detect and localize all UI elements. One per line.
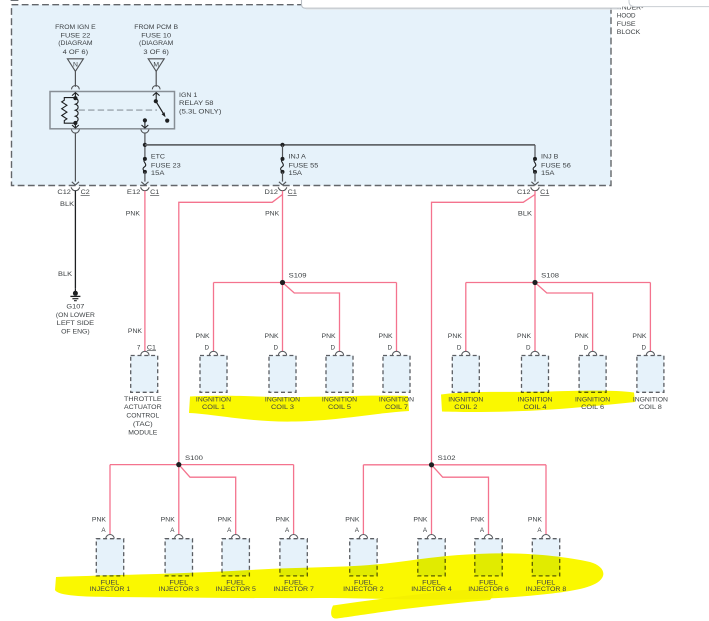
bus junction dot at INJ A <box>280 143 284 147</box>
wire S100 to injector 3 <box>178 465 180 535</box>
svg-text:PNK: PNK <box>470 517 485 524</box>
svg-text:S109: S109 <box>289 273 307 280</box>
svg-text:D: D <box>641 344 646 351</box>
label PNK at E12 <box>126 210 141 217</box>
svg-text:INJECTOR 2: INJECTOR 2 <box>343 586 384 593</box>
relay resistor (parallel) <box>62 98 76 124</box>
svg-text:ETC: ETC <box>151 153 166 160</box>
svg-text:FUSE 22: FUSE 22 <box>61 32 91 39</box>
fuel injector 2 <box>345 517 377 576</box>
svg-text:INGNITION: INGNITION <box>575 396 611 403</box>
svg-text:3 OF 6): 3 OF 6) <box>143 49 169 56</box>
wire bus to INJ A fuse <box>282 145 284 158</box>
wire S109 branch to coil 7 <box>283 283 397 352</box>
svg-text:E12: E12 <box>127 189 141 196</box>
svg-text:PNK: PNK <box>218 517 233 524</box>
svg-text:(TAC): (TAC) <box>133 421 153 428</box>
wire S100 branch to injector 7 <box>179 465 294 535</box>
svg-text:COIL 3: COIL 3 <box>271 404 295 411</box>
wire S102 branch to injector 2 <box>363 465 431 535</box>
wire relay switch to bus junction <box>144 133 146 158</box>
wire S102 to injector 4 <box>431 465 433 535</box>
splice S108 <box>532 273 559 286</box>
svg-text:INJECTOR 7: INJECTOR 7 <box>273 586 314 593</box>
svg-text:A: A <box>423 527 428 534</box>
svg-text:INGNITION: INGNITION <box>265 396 301 403</box>
ignition coil 5 <box>322 333 354 393</box>
connector D12/C1 <box>265 182 298 196</box>
svg-text:15A: 15A <box>289 170 303 177</box>
svg-text:PNK: PNK <box>379 333 394 340</box>
ignition coil 2 label <box>448 396 484 411</box>
wire E12 to TAC module <box>144 191 146 352</box>
svg-text:A: A <box>537 527 542 534</box>
svg-text:PNK: PNK <box>575 333 590 340</box>
svg-text:INJECTOR 3: INJECTOR 3 <box>159 586 200 593</box>
fuel injector 3 <box>161 517 193 576</box>
TAC module label <box>124 396 162 437</box>
svg-text:OF ENG): OF ENG) <box>61 329 90 336</box>
ignition coil 4 label <box>517 396 553 411</box>
svg-text:FUSE 56: FUSE 56 <box>541 163 571 170</box>
ignition coil 6 label <box>575 396 611 411</box>
svg-text:G107: G107 <box>66 303 84 310</box>
svg-text:COIL 2: COIL 2 <box>454 404 478 411</box>
svg-text:CONTROL: CONTROL <box>126 413 159 420</box>
svg-text:PNK: PNK <box>632 333 647 340</box>
off-page source label FROM PCM B FUSE 10 <box>134 24 178 56</box>
wire S108 branch to coil 6 <box>535 283 593 352</box>
wire BLK to ground G107 <box>74 191 76 288</box>
svg-text:D: D <box>388 344 393 351</box>
splice S100 <box>176 455 203 467</box>
svg-text:C2: C2 <box>81 189 91 196</box>
svg-text:BLK: BLK <box>58 271 73 278</box>
wire S108 branch to coil 2 <box>466 283 535 352</box>
wire S108 branch to coil 8 <box>535 283 650 352</box>
svg-text:COIL 7: COIL 7 <box>385 404 409 411</box>
fuel injector 7 <box>276 517 308 576</box>
svg-text:FUSE 10: FUSE 10 <box>141 32 171 39</box>
wire bus to INJ B fuse <box>534 145 536 158</box>
ignition coil 7 label <box>379 396 415 411</box>
wire S100 branch to injector 1 <box>110 465 179 535</box>
splice S102 <box>429 455 456 467</box>
highlight stroke over ignition coils 2-8 <box>441 391 635 412</box>
svg-text:C1: C1 <box>150 189 160 196</box>
wire C1 to splice S108 <box>534 191 536 352</box>
label BLK at C12/C1 <box>518 210 533 217</box>
svg-text:D: D <box>584 344 589 351</box>
relay switch blade <box>156 101 166 117</box>
svg-text:PNK: PNK <box>196 333 211 340</box>
label PNK at D12 <box>265 210 280 217</box>
svg-text:INGNITION: INGNITION <box>448 396 484 403</box>
ignition coil 1 label <box>196 396 232 411</box>
svg-text:S100: S100 <box>185 455 203 462</box>
svg-text:A: A <box>170 527 175 534</box>
svg-text:D: D <box>331 344 336 351</box>
svg-text:(ON LOWER: (ON LOWER <box>56 312 95 319</box>
svg-text:INJECTOR 6: INJECTOR 6 <box>468 586 509 593</box>
relay switch output dot <box>143 118 147 122</box>
svg-text:BLK: BLK <box>518 210 533 217</box>
svg-text:A: A <box>480 527 485 534</box>
svg-text:PNK: PNK <box>528 517 543 524</box>
svg-text:D: D <box>526 344 531 351</box>
fuse ETC FUSE 23 15A <box>143 153 181 181</box>
ignition coil 3 label <box>265 396 301 411</box>
svg-text:PNK: PNK <box>413 517 428 524</box>
relay mechanical link (dashed) <box>79 109 158 111</box>
svg-text:INGNITION: INGNITION <box>379 396 415 403</box>
ignition coil 8 label <box>633 396 669 411</box>
svg-text:C1: C1 <box>147 344 157 351</box>
fuel injector 8 label <box>526 579 567 593</box>
relay switch output arrow <box>142 120 149 128</box>
svg-text:HOOD: HOOD <box>617 13 636 20</box>
svg-text:PNK: PNK <box>265 210 280 217</box>
wire S109 branch to coil 5 <box>283 283 340 352</box>
ignition coil 8 <box>632 333 664 393</box>
svg-text:PNK: PNK <box>92 517 107 524</box>
svg-text:INGNITION: INGNITION <box>196 396 232 403</box>
svg-text:IGN 1: IGN 1 <box>179 92 198 99</box>
splice S109 <box>280 273 307 286</box>
relay switch input arrow <box>153 93 160 101</box>
svg-text:4 OF 6): 4 OF 6) <box>63 49 89 56</box>
wire relay coil to C12/C2 <box>74 133 76 182</box>
svg-text:C12: C12 <box>517 189 531 196</box>
fuel injector 7 label <box>273 579 314 593</box>
connector C12/C2 <box>57 182 90 196</box>
fuel injector 5 label <box>215 579 256 593</box>
relay box IGN 1 RELAY 58 <box>50 92 175 129</box>
svg-text:INGNITION: INGNITION <box>633 396 669 403</box>
relay coil output arrow <box>72 123 79 128</box>
svg-text:S108: S108 <box>541 273 559 280</box>
wire S102 branch to injector 6 <box>432 465 489 535</box>
relay switch contact dot <box>165 119 169 123</box>
fuel injector 4 <box>413 517 445 576</box>
wire S102 branch to injector 8 <box>432 465 547 535</box>
wire D12 to splice S109 <box>282 191 284 352</box>
cropped element at top edge <box>11 0 19 1</box>
svg-text:PNK: PNK <box>128 328 143 335</box>
svg-text:7: 7 <box>137 344 141 351</box>
wire N to relay <box>74 71 76 87</box>
throttle actuator control module box <box>131 351 158 392</box>
label BLK above ground <box>58 271 73 278</box>
fuel injector 2 label <box>343 579 384 593</box>
svg-text:D: D <box>205 344 210 351</box>
connector 7/C1 at TAC <box>137 344 157 351</box>
relay coil bottom terminal dot <box>73 121 77 125</box>
fuse INJ A FUSE 55 15A <box>281 153 319 181</box>
feed bus wire <box>145 144 535 146</box>
underhood fuse block <box>12 5 612 186</box>
svg-text:A: A <box>227 527 232 534</box>
svg-text:PNK: PNK <box>448 333 463 340</box>
svg-text:D: D <box>457 344 462 351</box>
svg-text:INJ A: INJ A <box>289 153 307 160</box>
svg-text:(DIAGRAM: (DIAGRAM <box>58 40 92 47</box>
ignition coil 1 <box>196 333 228 393</box>
svg-text:MODULE: MODULE <box>128 429 157 436</box>
relay coil input arrow <box>72 93 79 98</box>
off-page source label FROM IGN E FUSE 22 <box>55 24 96 56</box>
wire S100 branch to injector 5 <box>179 465 236 535</box>
ignition coil 3 <box>265 333 297 393</box>
off-page connector triangle N <box>67 59 83 72</box>
wire D12 branch to S100 feed <box>179 195 283 465</box>
fuel injector 3 label <box>159 579 200 593</box>
label PNK above TAC <box>128 328 143 335</box>
svg-text:C12: C12 <box>57 189 71 196</box>
fuse INJ B FUSE 56 15A <box>533 153 571 181</box>
svg-text:INJECTOR 8: INJECTOR 8 <box>526 586 567 593</box>
svg-text:COIL 4: COIL 4 <box>524 404 548 411</box>
wire S109 branch to coil 1 <box>214 283 283 352</box>
svg-text:THROTTLE: THROTTLE <box>124 396 162 403</box>
svg-text:COIL 8: COIL 8 <box>639 404 663 411</box>
svg-text:INGNITION: INGNITION <box>322 396 358 403</box>
fuel injector 5 <box>218 517 250 576</box>
white overlay panel (UI remnant) <box>302 0 709 9</box>
svg-text:D: D <box>274 344 279 351</box>
svg-text:A: A <box>355 527 360 534</box>
svg-text:PNK: PNK <box>517 333 532 340</box>
connector below relay (switch side) <box>141 130 149 134</box>
svg-text:(DIAGRAM: (DIAGRAM <box>139 40 173 47</box>
svg-text:M: M <box>153 62 159 69</box>
relay switch common dot <box>154 99 158 103</box>
svg-text:INJECTOR 4: INJECTOR 4 <box>411 586 452 593</box>
ignition coil 2 <box>448 333 480 393</box>
fuel injector 6 label <box>468 579 509 593</box>
svg-text:COIL 5: COIL 5 <box>328 404 352 411</box>
svg-text:PNK: PNK <box>265 333 280 340</box>
highlight stroke over ignition coils 1-7 <box>189 396 409 422</box>
wire C1 branch to S102 feed <box>432 195 536 465</box>
fuel injector 4 label <box>411 579 452 593</box>
svg-text:N: N <box>73 62 78 69</box>
connector at relay coil input <box>72 85 80 89</box>
svg-text:FUSE: FUSE <box>617 21 636 28</box>
svg-text:BLK: BLK <box>60 201 75 208</box>
svg-text:RELAY 58: RELAY 58 <box>179 100 214 107</box>
fuel injector 1 <box>92 517 124 576</box>
fuel injector 8 <box>528 517 560 576</box>
svg-text:15A: 15A <box>151 170 165 177</box>
relay label <box>179 92 221 116</box>
fuel injector 6 <box>470 517 502 576</box>
svg-text:BLOCK: BLOCK <box>617 29 641 36</box>
underhood fuse block name label <box>617 4 644 36</box>
bus junction dot at ETC <box>143 143 147 147</box>
svg-text:PNK: PNK <box>345 517 360 524</box>
svg-text:INGNITION: INGNITION <box>517 396 553 403</box>
svg-text:PNK: PNK <box>161 517 176 524</box>
connector E12/C1 <box>127 182 160 196</box>
ignition coil 5 label <box>322 396 358 411</box>
svg-text:COIL 6: COIL 6 <box>581 404 605 411</box>
svg-text:PNK: PNK <box>126 210 141 217</box>
svg-text:A: A <box>101 527 106 534</box>
svg-text:15A: 15A <box>541 170 555 177</box>
highlight stroke tail under injectors <box>331 589 493 619</box>
ignition coil 7 <box>379 333 411 393</box>
svg-text:A: A <box>285 527 290 534</box>
svg-text:ACTUATOR: ACTUATOR <box>124 404 162 411</box>
svg-text:(5.3L ONLY): (5.3L ONLY) <box>179 109 221 116</box>
svg-text:FROM PCM B: FROM PCM B <box>134 24 178 31</box>
ignition coil 6 <box>575 333 606 393</box>
ground label G107 <box>56 303 95 335</box>
fuel injector 1 label <box>90 579 131 593</box>
relay coil winding <box>75 98 78 122</box>
highlight stroke over fuel injectors <box>55 553 603 599</box>
svg-text:INJECTOR 1: INJECTOR 1 <box>90 586 131 593</box>
connector at relay switch input <box>152 85 160 89</box>
ignition coil 4 <box>517 333 549 393</box>
ground G107 symbol <box>70 288 80 300</box>
svg-text:INJ B: INJ B <box>541 153 558 160</box>
off-page connector triangle M <box>148 59 164 72</box>
connector below relay (coil side) <box>71 130 79 134</box>
connector C12/C1 <box>517 182 550 196</box>
svg-text:FROM IGN E: FROM IGN E <box>55 24 96 31</box>
svg-text:C1: C1 <box>288 189 298 196</box>
svg-text:PNK: PNK <box>322 333 337 340</box>
wire M to relay <box>155 71 157 87</box>
label BLK at C12/C2 <box>60 201 75 208</box>
svg-text:C1: C1 <box>540 189 550 196</box>
svg-text:S102: S102 <box>438 455 456 462</box>
svg-text:FUSE 55: FUSE 55 <box>289 163 319 170</box>
svg-text:INJECTOR 5: INJECTOR 5 <box>215 586 256 593</box>
svg-text:COIL 1: COIL 1 <box>202 404 226 411</box>
svg-text:FUSE 23: FUSE 23 <box>151 163 181 170</box>
svg-text:D12: D12 <box>265 189 279 196</box>
svg-text:LEFT SIDE: LEFT SIDE <box>57 320 94 327</box>
svg-text:PNK: PNK <box>276 517 291 524</box>
relay coil top terminal dot <box>73 96 77 100</box>
